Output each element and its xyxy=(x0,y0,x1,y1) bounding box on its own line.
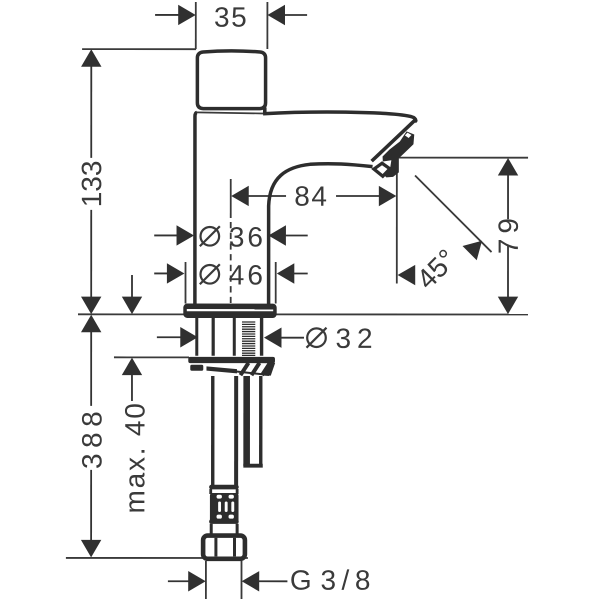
faucet cap xyxy=(197,51,265,109)
dimension diameter46 left extension line xyxy=(184,262,186,304)
bottom reference line xyxy=(66,557,248,559)
dimension G38 left arrow xyxy=(168,571,206,591)
dimension 133 top arrow xyxy=(81,49,101,67)
svg-text:84: 84 xyxy=(294,181,328,212)
mounting nut bottom bar xyxy=(206,366,237,373)
aerator barrel mass xyxy=(383,131,415,177)
hose side lines lower xyxy=(211,524,237,534)
dimension 84 left arrow xyxy=(231,186,286,206)
dimension 35 right arrow xyxy=(267,5,307,25)
flange body xyxy=(183,304,276,318)
diameter46 symbol xyxy=(200,264,220,284)
cap right step xyxy=(263,107,267,114)
top reference line xyxy=(82,48,196,50)
inner tube bottom cap xyxy=(243,464,262,468)
svg-text:G 3/8: G 3/8 xyxy=(290,565,371,596)
hose second line xyxy=(234,376,238,486)
hose connector band 2 xyxy=(209,519,239,524)
svg-text:388: 388 xyxy=(76,406,107,469)
aerator tip xyxy=(374,163,390,176)
shank outer left line xyxy=(195,318,198,356)
dimension G38 left extension line xyxy=(205,561,207,599)
dimension diameter46 right arrow xyxy=(277,263,308,283)
dimension 133 line xyxy=(90,64,92,299)
spout underside and body right edge xyxy=(269,164,373,305)
45 degree diagonal line xyxy=(415,176,492,253)
dimension max40 lower arrow xyxy=(122,358,142,376)
G38 nut inner line right xyxy=(233,538,236,557)
svg-text:32: 32 xyxy=(335,323,378,354)
45 degree corner vertical line xyxy=(396,158,398,284)
dimension 84 right arrow xyxy=(336,186,396,206)
hose side lines upper xyxy=(211,489,237,494)
dimension diameter32 left arrow xyxy=(157,327,198,347)
deck line xyxy=(78,313,528,315)
dimension 84 left extension line xyxy=(230,179,232,218)
dimension 79 line xyxy=(507,173,509,299)
dimension G38 right extension line xyxy=(240,561,242,599)
dimension diameter36 right arrow xyxy=(268,225,307,245)
mounting nut top bar xyxy=(188,357,275,363)
faucet body left edge xyxy=(195,112,197,304)
mounting nut right end xyxy=(264,363,276,376)
dimension 79 top arrow xyxy=(498,158,518,176)
cap joint line xyxy=(197,112,264,113)
dimension diameter46 left arrow xyxy=(154,263,184,283)
mounting nut left step xyxy=(190,365,203,371)
svg-text:36: 36 xyxy=(229,221,266,252)
svg-text:45°: 45° xyxy=(411,243,463,295)
hose textured block xyxy=(210,493,239,523)
center dashed line xyxy=(230,222,232,303)
svg-text:max. 40: max. 40 xyxy=(119,401,150,513)
dimension G38 right arrow xyxy=(242,571,288,591)
dimension 35 left extension line xyxy=(195,2,197,49)
dimension max40 upper stem xyxy=(131,275,133,298)
dimension 388 top arrow xyxy=(81,315,101,333)
G38 nut body xyxy=(203,536,245,559)
inner tube left bar xyxy=(243,376,250,466)
mounting nut bottom edge xyxy=(236,371,269,375)
svg-text:79: 79 xyxy=(493,213,524,254)
inner tube right line xyxy=(259,376,262,466)
dimension max40 upper arrow xyxy=(122,297,142,315)
dimension 388 bottom arrow xyxy=(81,540,101,558)
dimension 35 left arrow xyxy=(155,5,196,25)
hose connector band 1 xyxy=(209,485,239,490)
diameter32 symbol xyxy=(306,328,326,348)
dimension 388 line xyxy=(90,330,92,541)
mounting nut hatch xyxy=(240,363,270,375)
svg-text:46: 46 xyxy=(229,259,266,290)
shank thread hatch xyxy=(242,322,255,355)
shank outer right line xyxy=(260,318,263,356)
dimension max40 lower stem xyxy=(131,375,133,401)
dimension diameter36 left arrow xyxy=(154,225,194,245)
aerator barrel top line xyxy=(372,120,416,161)
spout top edge xyxy=(263,112,416,122)
shank inner line 1 xyxy=(212,318,215,356)
svg-text:35: 35 xyxy=(214,2,248,33)
dimension 79 bottom arrow xyxy=(498,297,518,315)
svg-text:133: 133 xyxy=(76,161,107,208)
max40 reference line xyxy=(114,356,189,358)
dimension 133 bottom arrow xyxy=(81,297,101,315)
dimension diameter32 arrow xyxy=(264,327,304,347)
shank inner line 2 xyxy=(233,318,236,356)
diameter36 symbol xyxy=(200,226,220,246)
dimension 35 right extension line xyxy=(266,2,268,49)
45 degree left arrow xyxy=(398,265,416,285)
dimension diameter46 right extension line xyxy=(275,262,277,304)
flange slit xyxy=(187,309,273,311)
dimension 79 top reference line xyxy=(398,157,528,159)
hose rod line xyxy=(211,376,214,486)
45 degree diagonal arrow xyxy=(463,241,483,261)
G38 nut inner line left xyxy=(214,538,217,557)
